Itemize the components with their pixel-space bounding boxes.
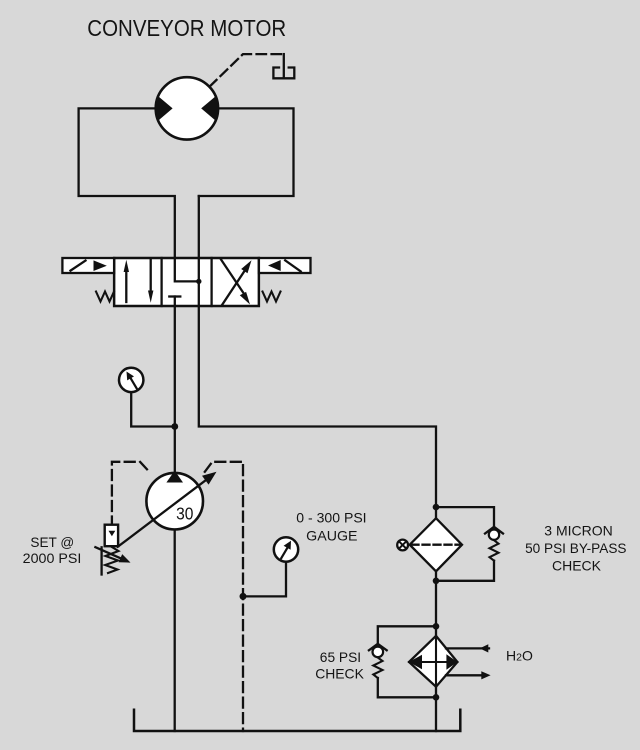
bypass check valve seat xyxy=(485,527,503,534)
dashed pilot line left xyxy=(112,462,150,527)
relief valve inner triangle xyxy=(109,531,116,536)
valve right box cross arrow 2 xyxy=(221,260,250,305)
motor arrow right xyxy=(201,96,218,120)
wire filter bypass top xyxy=(436,507,494,527)
gauge G1 xyxy=(119,368,143,392)
valve left box down arrow xyxy=(148,260,153,303)
motor M1 xyxy=(156,77,218,139)
heat exchanger cross horizontal xyxy=(409,661,457,663)
motor case drain dashed line xyxy=(210,54,284,86)
valve middle box junction dot xyxy=(196,279,201,284)
wire 65psi check top xyxy=(378,626,436,644)
motor arrow left xyxy=(156,96,173,120)
tank T1 xyxy=(134,710,460,731)
svg-text:CHECK: CHECK xyxy=(552,557,602,573)
bypass check valve spring xyxy=(490,540,499,561)
junction dot filter bottom xyxy=(433,578,440,585)
pump P1 xyxy=(146,473,203,530)
wire P line xyxy=(174,297,176,473)
heat exchanger HX1 diamond xyxy=(409,636,457,687)
wire cooler to tank xyxy=(435,687,437,731)
relief valve drain line xyxy=(100,547,102,574)
filter element dashed xyxy=(412,544,461,546)
spring left W xyxy=(96,292,114,302)
wire B-T line xyxy=(199,196,436,518)
junction dot gauge2 tee xyxy=(240,593,247,600)
65psi check valve ball xyxy=(373,647,384,658)
pump displacement arrow xyxy=(118,472,217,547)
gauge G2 xyxy=(274,537,298,561)
filter clog indicator xyxy=(397,540,408,551)
valve left box up arrow xyxy=(124,260,129,302)
wire motor left branch xyxy=(79,108,199,281)
svg-text:CHECK: CHECK xyxy=(315,666,364,682)
water inlet arrow xyxy=(446,644,489,652)
valve V1 body xyxy=(114,258,259,306)
relief valve adjust arrow xyxy=(95,547,130,562)
solenoid right diagonal xyxy=(285,260,301,271)
wire motor right branch xyxy=(199,108,294,196)
drain tank symbol xyxy=(273,54,294,78)
svg-text:3 MICRON: 3 MICRON xyxy=(544,523,613,539)
heat exchanger right arrowhead xyxy=(446,654,457,669)
solenoid right triangle xyxy=(268,260,281,271)
solenoid right box xyxy=(259,258,311,273)
spring right W xyxy=(263,292,281,302)
valve V1 outline xyxy=(114,258,259,306)
filter F1 diamond xyxy=(410,518,462,571)
wire gauge G2 stem xyxy=(243,562,286,597)
junction dot cooler top xyxy=(433,623,440,630)
wire pump suction xyxy=(174,530,176,732)
svg-text:50 PSI BY-PASS: 50 PSI BY-PASS xyxy=(525,540,626,556)
valve border line 1 xyxy=(160,258,162,306)
65psi check valve spring xyxy=(373,658,382,679)
65psi check valve seat xyxy=(369,644,387,651)
relief valve spring xyxy=(105,547,118,573)
svg-text:CONVEYOR MOTOR: CONVEYOR MOTOR xyxy=(87,15,286,41)
solenoid left box xyxy=(62,258,114,273)
solenoid left triangle xyxy=(94,260,107,271)
heat exchanger cross vertical xyxy=(435,636,437,687)
valve border line 2 xyxy=(210,258,212,306)
junction dot filter top xyxy=(433,504,440,511)
dashed case drain right xyxy=(205,462,243,731)
water outlet arrow xyxy=(446,671,491,679)
pump outlet triangle xyxy=(166,471,183,483)
wire filter to cooler xyxy=(435,571,437,636)
wire gauge G1 stem xyxy=(131,392,175,426)
svg-text:SET @: SET @ xyxy=(30,534,74,550)
valve right box cross arrow 1 xyxy=(222,260,252,305)
svg-text:30: 30 xyxy=(176,504,194,524)
bypass check valve ball xyxy=(489,530,499,540)
relief valve RV1 body xyxy=(105,525,118,547)
solenoid left diagonal xyxy=(71,261,86,271)
svg-text:GAUGE: GAUGE xyxy=(306,527,357,543)
wire filter bypass bottom xyxy=(436,561,494,581)
valve middle box blocked P port xyxy=(169,295,180,297)
svg-text:2000 PSI: 2000 PSI xyxy=(23,550,82,566)
svg-text:65 PSI: 65 PSI xyxy=(320,649,361,665)
wire 65psi check bottom xyxy=(378,678,436,697)
heat exchanger left arrowhead xyxy=(409,655,422,669)
junction dot cooler bottom xyxy=(433,694,440,701)
svg-text:0 - 300 PSI: 0 - 300 PSI xyxy=(296,510,366,526)
junction dot gauge tee xyxy=(171,423,178,430)
